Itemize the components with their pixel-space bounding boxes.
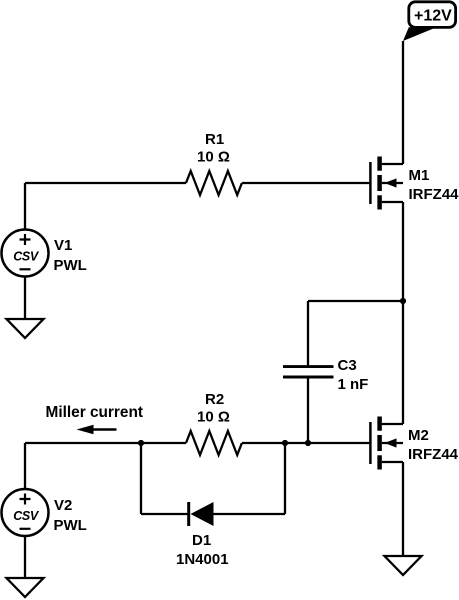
svg-text:D1: D1: [192, 532, 211, 549]
svg-text:M2: M2: [408, 427, 429, 444]
svg-text:R1: R1: [205, 131, 224, 148]
svg-text:10 Ω: 10 Ω: [197, 149, 230, 166]
svg-text:1N4001: 1N4001: [176, 551, 229, 568]
svg-text:PWL: PWL: [54, 517, 87, 534]
svg-text:C3: C3: [338, 357, 357, 374]
svg-text:M1: M1: [409, 167, 430, 184]
svg-text:+12V: +12V: [414, 8, 452, 25]
svg-text:CSV: CSV: [13, 249, 40, 263]
svg-text:CSV: CSV: [13, 509, 40, 523]
svg-text:V2: V2: [54, 497, 72, 514]
svg-text:Miller current: Miller current: [46, 404, 144, 421]
svg-text:IRFZ44: IRFZ44: [409, 186, 459, 203]
svg-text:1 nF: 1 nF: [338, 376, 369, 393]
svg-text:V1: V1: [54, 237, 72, 254]
svg-text:R2: R2: [205, 391, 224, 408]
svg-text:IRFZ44: IRFZ44: [408, 446, 459, 463]
svg-text:PWL: PWL: [54, 257, 87, 274]
svg-text:10 Ω: 10 Ω: [197, 409, 230, 426]
